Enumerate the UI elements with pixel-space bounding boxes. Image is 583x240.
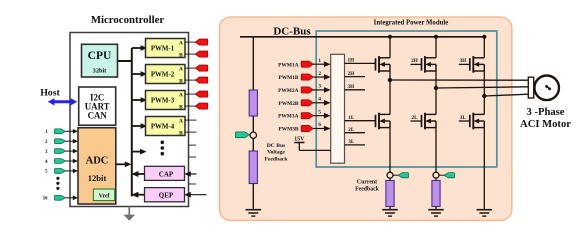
svg-text:3L: 3L <box>348 139 355 145</box>
1L gate wire <box>345 115 376 121</box>
PWM-3 output stub B <box>185 105 197 107</box>
ground (leg 1) <box>382 210 398 216</box>
DC bus wire <box>240 36 486 38</box>
svg-text:12bit: 12bit <box>88 173 107 183</box>
svg-text:5: 5 <box>318 109 321 115</box>
current feedback connector 1 <box>393 173 409 178</box>
Current Feedback label <box>355 180 380 193</box>
gray ground arrow below microcontroller <box>123 207 135 221</box>
svg-text:2H: 2H <box>411 58 418 64</box>
wire: bus to PWM-1 <box>132 45 147 51</box>
PWM1A input label <box>278 62 298 68</box>
ADC channel dots <box>56 177 59 190</box>
15V supply <box>294 137 330 151</box>
phase node 2 <box>434 86 438 90</box>
wire: R2 to ground <box>252 184 254 210</box>
svg-text:QEP: QEP <box>159 192 174 200</box>
wire: bus tap down <box>252 37 254 90</box>
phase wire U <box>390 79 529 81</box>
leg 3 drain wire (bus to 3H) <box>483 37 485 58</box>
DC-Bus label <box>273 26 311 38</box>
svg-text:Voltage: Voltage <box>267 150 285 156</box>
svg-text:CAP: CAP <box>159 170 174 178</box>
Integrated Power Module label <box>374 19 449 26</box>
wire: bus to PWM-3 <box>132 97 147 103</box>
peripheral dots <box>161 141 165 156</box>
svg-text:B: B <box>179 79 183 85</box>
PWM3A red connector <box>301 113 313 119</box>
wire: 1L source down to sense node <box>389 128 391 173</box>
svg-text:Host: Host <box>40 87 60 98</box>
ground (leg 3) <box>477 210 493 216</box>
ground (divider) <box>246 210 261 216</box>
3L gate stub <box>459 115 470 121</box>
current feedback connector 2 <box>439 173 455 178</box>
leg 2 drain wire (bus to 2H) <box>435 37 437 58</box>
driver pin number 3 <box>318 84 321 90</box>
3H stub <box>345 84 366 90</box>
svg-text:DC-Bus: DC-Bus <box>273 26 311 38</box>
PWM1B red connector <box>301 74 313 80</box>
wire+arrow: PWM3B into driver pin 6 <box>313 126 331 132</box>
current sense node 2 <box>433 172 439 178</box>
PWM-1 output stub B <box>185 53 197 55</box>
2L gate stub <box>411 115 422 121</box>
PWM1B input label <box>278 75 298 81</box>
wire+arrow: PWM2A into driver pin 3 <box>313 87 331 93</box>
ADC input pin 16 <box>43 195 78 201</box>
transistor 3H <box>470 56 485 73</box>
svg-text:PWM2A: PWM2A <box>278 88 298 94</box>
wire: 2L source down to sense node <box>435 128 437 173</box>
svg-text:1: 1 <box>318 58 321 64</box>
svg-text:3 -Phase: 3 -Phase <box>527 107 565 118</box>
wire+arrow: PWM1A into driver pin 1 <box>313 61 331 67</box>
driver pin number 5 <box>318 109 321 115</box>
ground (leg 2) <box>428 210 444 216</box>
wire+arrow: PWM1B into driver pin 2 <box>313 74 331 80</box>
PWM-1 block <box>146 39 186 59</box>
ADC input pin 3 <box>45 149 78 155</box>
svg-text:DC Bus: DC Bus <box>267 143 286 149</box>
PWM2A red connector <box>195 65 208 71</box>
PWM2A input label <box>278 88 298 94</box>
PWM3B input label <box>278 127 298 133</box>
ADC input pin 4 <box>45 159 78 165</box>
wire: phase node to 2L drain <box>435 88 437 114</box>
ADC input pin 5 <box>45 169 78 175</box>
IPM box <box>316 31 497 167</box>
phase wire V <box>436 87 529 88</box>
svg-text:B: B <box>179 131 183 137</box>
microcontroller box U1 <box>70 33 189 207</box>
DC Bus Voltage Feedback label <box>265 143 289 162</box>
svg-text:3H: 3H <box>347 84 354 90</box>
svg-text:ACI Motor: ACI Motor <box>520 119 571 130</box>
PWM1B red connector <box>195 51 208 57</box>
svg-text:16: 16 <box>43 197 48 202</box>
PWM2A red connector <box>301 87 313 93</box>
right edge stubs <box>189 145 197 184</box>
DC bus feedback connector <box>235 132 249 138</box>
internal bus wire (CPU to peripherals) <box>118 48 132 196</box>
svg-text:CPU: CPU <box>88 50 112 62</box>
svg-text:PWM-3: PWM-3 <box>151 98 175 105</box>
wire: 3L source down to ground <box>483 128 485 210</box>
svg-text:Feedback: Feedback <box>355 186 380 192</box>
current sense node 1 <box>387 172 393 178</box>
node: DC bus feedback tap <box>250 132 256 138</box>
wire: 2H source to phase node <box>435 71 437 88</box>
CAP block <box>145 166 185 180</box>
svg-text:PWM3B: PWM3B <box>278 127 298 133</box>
CAP external input <box>184 171 196 177</box>
wire: phase node to 3L drain <box>483 96 485 114</box>
svg-text:32bit: 32bit <box>93 67 108 74</box>
svg-text:6: 6 <box>318 122 321 128</box>
phase node 3 <box>482 94 486 98</box>
svg-text:PWM-2: PWM-2 <box>151 72 175 79</box>
wire: 3H source to phase node <box>483 71 485 96</box>
2H gate stub <box>411 58 422 64</box>
QEP block <box>145 188 185 202</box>
svg-text:3L: 3L <box>460 115 467 121</box>
wire+arrow: PWM2B into driver pin 4 <box>313 100 331 106</box>
wire: 1H source to phase node <box>389 71 391 80</box>
Vref block <box>93 189 114 201</box>
svg-text:B: B <box>179 105 183 111</box>
QEP external input <box>184 192 206 198</box>
current sense resistor R2 <box>432 178 440 210</box>
wire: phase node to 1L drain <box>389 80 391 114</box>
motor label <box>520 107 571 130</box>
resistor R1 (divider top) <box>249 90 257 116</box>
driver pin number 2 <box>318 71 321 77</box>
PWM-2 output stub A <box>185 67 197 69</box>
PWM2B red connector <box>301 100 313 106</box>
svg-text:PWM-4: PWM-4 <box>151 124 175 131</box>
3L stub <box>345 139 366 145</box>
transistor 1L <box>376 113 391 130</box>
svg-text:Feedback: Feedback <box>265 156 289 162</box>
ADC input pin 2 <box>45 139 78 145</box>
svg-text:2H: 2H <box>347 71 354 77</box>
PWM3A red connector <box>195 91 208 97</box>
svg-text:2L: 2L <box>411 115 418 121</box>
current sense resistor R1 <box>386 178 394 210</box>
PWM-4 output stub A <box>185 119 197 121</box>
resistor R2 (divider bottom) <box>249 151 257 184</box>
PWM2B input label <box>278 101 298 107</box>
PWM-2 block <box>146 65 186 85</box>
svg-text:PWM1B: PWM1B <box>278 75 298 81</box>
node: bus-leg1 <box>388 35 392 39</box>
svg-text:1H: 1H <box>347 58 354 64</box>
gate driver block <box>331 54 345 163</box>
phase wire W <box>484 94 529 96</box>
CPU block <box>82 44 118 77</box>
wire: node to R2 <box>252 138 254 151</box>
transistor 2L <box>422 113 437 130</box>
driver pin number 4 <box>318 96 321 102</box>
QEP input arrow to bus <box>131 192 144 198</box>
CAP input arrow to bus <box>131 171 144 177</box>
svg-text:A: A <box>179 92 183 98</box>
PWM-1 output stub A <box>185 41 197 43</box>
3H gate stub <box>459 58 470 64</box>
PWM1A red connector <box>195 39 208 45</box>
microcontroller title <box>91 14 165 26</box>
svg-text:A: A <box>179 118 183 124</box>
PWM-4 output stub B <box>185 131 197 133</box>
svg-text:B: B <box>179 53 183 59</box>
PWM-2 output stub B <box>185 79 197 81</box>
host label <box>40 87 60 98</box>
transistor 1H <box>376 56 391 73</box>
PWM3B red connector <box>301 125 313 131</box>
PWM2B red connector <box>195 77 208 83</box>
svg-text:A: A <box>179 40 183 46</box>
transistor 3L <box>470 113 485 130</box>
bus arrow to expansion dots <box>132 149 147 155</box>
leg 1 drain wire (bus to 1H) <box>389 37 391 58</box>
ADC input pin 1 <box>45 129 78 135</box>
PWM-3 output stub A <box>185 93 197 95</box>
svg-text:3H: 3H <box>459 58 466 64</box>
svg-text:PWM-1: PWM-1 <box>151 46 175 53</box>
ADC output arrow to bus <box>116 161 132 167</box>
transistor 2H <box>422 56 437 73</box>
2L stub <box>345 127 366 133</box>
node: bus-leg3 <box>482 35 486 39</box>
PWM3A input label <box>278 114 298 120</box>
wire+arrow: PWM3A into driver pin 5 <box>313 113 331 119</box>
svg-text:3: 3 <box>318 84 321 90</box>
motor terminal <box>528 77 533 98</box>
svg-text:ADC: ADC <box>86 156 109 167</box>
svg-text:2: 2 <box>318 71 321 77</box>
svg-text:PWM1A: PWM1A <box>278 62 298 68</box>
phase node 1 <box>388 78 392 82</box>
PWM-4 block <box>146 117 186 137</box>
svg-text:CAN: CAN <box>88 111 108 121</box>
svg-text:A: A <box>179 66 183 72</box>
svg-text:4: 4 <box>318 96 321 102</box>
svg-text:Vref: Vref <box>99 194 110 200</box>
motor M1 <box>534 76 559 101</box>
svg-text:Integrated Power Module: Integrated Power Module <box>374 19 449 26</box>
PWM-3 block <box>146 91 186 111</box>
PWM3B red connector <box>195 103 208 109</box>
host bus arrow <box>48 98 77 105</box>
svg-text:PWM3A: PWM3A <box>278 114 298 120</box>
I2C UART CAN block <box>79 87 116 125</box>
svg-text:Microcontroller: Microcontroller <box>91 14 165 26</box>
driver pin number 1 <box>318 58 321 64</box>
svg-text:1L: 1L <box>348 115 355 121</box>
2H stub <box>345 71 366 77</box>
node: bus-leg2 <box>434 35 438 39</box>
1H gate wire <box>345 58 376 64</box>
wire: bus to PWM-2 <box>132 71 147 77</box>
svg-text:2L: 2L <box>348 127 355 133</box>
wire: R1 to node <box>252 116 254 132</box>
driver pin number 6 <box>318 122 321 128</box>
svg-text:PWM2B: PWM2B <box>278 101 298 107</box>
power stage background panel <box>220 17 512 220</box>
wire: bus to PWM-4 <box>132 123 147 129</box>
PWM1A red connector <box>301 61 313 67</box>
svg-text:Current: Current <box>357 180 377 186</box>
ADC block <box>78 128 116 204</box>
